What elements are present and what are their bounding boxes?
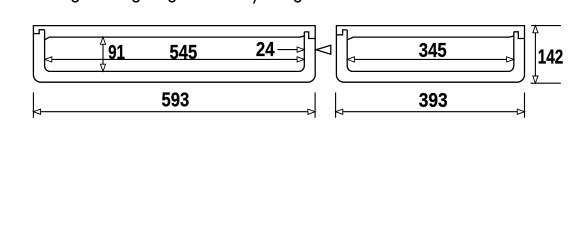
arrow 345 right bbox=[507, 57, 514, 62]
arrow 142 top bbox=[533, 26, 538, 33]
leader 24 bbox=[278, 49, 305, 51]
dim line 545 bbox=[45, 58, 305, 60]
dim line 91 vertical bbox=[102, 37, 104, 71]
letter-bottom g4 bbox=[295, 0, 301, 2]
svg-text:142: 142 bbox=[538, 46, 564, 68]
arrow 393 right bbox=[517, 109, 524, 114]
arrow 393 left bbox=[336, 109, 343, 114]
svg-text:24: 24 bbox=[256, 39, 275, 61]
left tray inner right wall bbox=[299, 32, 305, 72]
right tray inner right wall bbox=[508, 32, 514, 72]
arrow 142 bottom bbox=[533, 76, 538, 83]
letter-bottom g3 bbox=[169, 0, 175, 2]
ext line 393 right bbox=[524, 92, 526, 117]
letter-bottom slash bbox=[254, 0, 256, 4]
dim line 345 bbox=[347, 58, 514, 60]
ext line 142 top bbox=[531, 25, 561, 27]
arrow 91 bottom bbox=[100, 64, 105, 71]
arrow 593 right bbox=[308, 109, 315, 114]
arrow 545 right bbox=[297, 57, 304, 62]
arrow 91 top bbox=[100, 37, 105, 44]
right tray inner left wall bbox=[347, 30, 353, 72]
dim line 393 bbox=[336, 111, 525, 113]
dim line 593 bbox=[33, 111, 315, 113]
right tray outer shell bbox=[336, 26, 524, 83]
arrow 345 left bbox=[347, 57, 354, 62]
left tray inner bottom line bbox=[50, 70, 299, 72]
right tray left rim tab bbox=[336, 30, 347, 35]
ext line 393 left bbox=[335, 92, 337, 117]
letter-bottom g1 bbox=[72, 0, 78, 2]
ext line 593 right bbox=[314, 92, 316, 117]
right tray inner top line bbox=[347, 36, 514, 40]
ext line 593 left bbox=[32, 92, 34, 117]
left tray left rim tab bbox=[33, 30, 44, 34]
triangle pointer bbox=[316, 45, 331, 54]
right tray right rim tab bbox=[514, 32, 525, 39]
svg-text:393: 393 bbox=[419, 90, 448, 112]
left tray inner top line bbox=[45, 36, 305, 40]
arrow 545 left bbox=[45, 57, 52, 62]
dim line 142 bbox=[534, 26, 536, 84]
left tray outer shell bbox=[33, 26, 315, 83]
ext line 142 bottom bbox=[531, 82, 561, 84]
left tray inner left wall bbox=[45, 30, 51, 72]
svg-text:345: 345 bbox=[419, 40, 447, 62]
arrow 593 left bbox=[33, 109, 40, 114]
letter-bottom g2 bbox=[133, 0, 139, 2]
right tray inner bottom line bbox=[353, 70, 509, 72]
svg-text:593: 593 bbox=[162, 89, 190, 111]
svg-text:545: 545 bbox=[170, 42, 198, 64]
left tray right rim tab bbox=[304, 32, 315, 39]
svg-text:91: 91 bbox=[108, 42, 125, 64]
arrow 24 bbox=[297, 47, 304, 52]
